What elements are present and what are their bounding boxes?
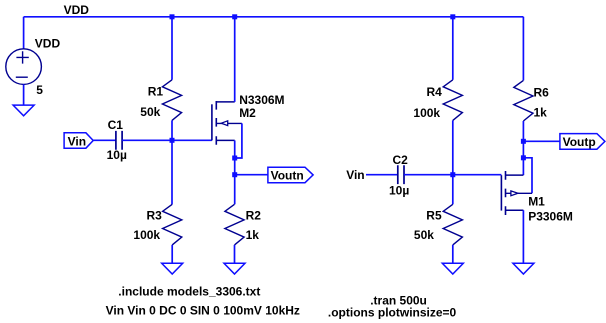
wire rail to R1: [171, 17, 173, 80]
junction node at R4/C2/R5/M1-gate: [450, 172, 455, 177]
wire mid junction down to R3: [171, 140, 173, 204]
svg-text:Vin Vin 0 DC 0 SIN 0 100mV 10k: Vin Vin 0 DC 0 SIN 0 100mV 10kHz: [106, 304, 300, 318]
junction M1 source/bulk node: [521, 155, 526, 160]
wire R6 bottom to Voutp node: [522, 121, 524, 141]
junction on rail at R4 column: [450, 14, 455, 19]
wire M2 bulk to source node: [235, 123, 242, 158]
wire rail corner down to R6: [522, 17, 524, 81]
wire M1 source up to node: [522, 158, 524, 175]
svg-text:100k: 100k: [413, 106, 440, 120]
ground below R5: [442, 263, 463, 274]
wire R3 to ground: [171, 245, 173, 263]
svg-text:M1: M1: [528, 194, 545, 208]
wire M1 drain down to ground: [522, 210, 524, 263]
wire Vin label to C2: [366, 174, 398, 176]
svg-text:R4: R4: [427, 85, 443, 99]
svg-text:Vin: Vin: [68, 134, 86, 148]
port Voutn tag: [268, 167, 313, 183]
wire junction down to R5: [452, 175, 454, 205]
junction output node Voutn: [232, 172, 237, 177]
wire output node to R2: [234, 175, 236, 205]
wire M1 bulk to node: [523, 158, 532, 194]
transistor M1 drain lead: [506, 209, 524, 211]
svg-text:100k: 100k: [133, 228, 160, 242]
svg-text:.include models_3306.txt: .include models_3306.txt: [118, 284, 260, 298]
resistor R3: [163, 204, 182, 245]
capacitor C2: [398, 165, 404, 184]
wire source node to output node: [234, 158, 236, 175]
svg-text:M2: M2: [239, 106, 256, 120]
svg-text:P3306M: P3306M: [528, 210, 573, 224]
transistor M2 channel segments: [215, 101, 217, 145]
svg-text:Voutn: Voutn: [271, 168, 304, 182]
ground below R2: [224, 263, 245, 274]
wire rail to R4: [452, 17, 454, 80]
transistor M1 channel segments: [505, 171, 507, 215]
port Vin input tag: [64, 133, 93, 148]
wire Vin tag to C1: [93, 139, 116, 141]
svg-text:.options plotwinsize=0: .options plotwinsize=0: [328, 306, 457, 320]
wire VDD rail: [24, 16, 524, 18]
wire M2 source down: [234, 140, 236, 158]
wire rail to M2 drain: [234, 17, 236, 102]
transistor M2 gate bar: [211, 104, 213, 140]
transistor M1 gate bar: [500, 175, 502, 210]
wire junction to M1 gate: [453, 174, 502, 176]
voltage source V1 minus sign: [16, 76, 28, 78]
junction Voutp node: [521, 139, 526, 144]
transistor M2 source lead: [216, 139, 234, 141]
svg-text:R2: R2: [246, 209, 262, 223]
transistor M2 bulk lead with arrow: [216, 122, 242, 124]
ground below M1: [513, 263, 534, 274]
wire junction to M2 gate: [172, 139, 212, 141]
wire to Voutp tag: [523, 140, 560, 142]
svg-text:R6: R6: [534, 86, 550, 100]
svg-text:1k: 1k: [534, 106, 548, 120]
voltage source V1 circle: [6, 49, 42, 85]
wire C1 to mid junction: [122, 139, 172, 141]
wire to Voutn tag: [235, 174, 268, 176]
transistor M1 source lead: [506, 174, 524, 176]
transistor M2 drain lead: [216, 101, 234, 103]
svg-text:10µ: 10µ: [389, 183, 409, 197]
svg-text:1k: 1k: [246, 228, 260, 242]
ground below R3: [162, 263, 183, 274]
svg-text:VDD: VDD: [35, 36, 61, 50]
ground below V1: [13, 105, 34, 116]
resistor R6: [514, 80, 533, 121]
wire R4 bottom to right mid junction: [452, 120, 454, 174]
port Voutp tag: [560, 134, 605, 150]
junction on rail at R1 column: [170, 14, 175, 19]
wire rail to V1 top: [23, 17, 25, 49]
svg-text:R3: R3: [147, 209, 163, 223]
capacitor C1: [116, 131, 122, 150]
svg-text:10µ: 10µ: [107, 148, 127, 162]
svg-text:Vin: Vin: [346, 168, 364, 182]
transistor M1 bulk lead with arrow: [506, 192, 533, 194]
junction node at R1/C1/R3/M2-gate: [170, 138, 175, 143]
voltage source V1 plus sign: [16, 51, 28, 63]
svg-text:C1: C1: [108, 118, 124, 132]
svg-text:C2: C2: [393, 153, 409, 167]
wire V1 bottom to ground: [23, 84, 25, 105]
wire Voutp node down to M1 source node: [522, 141, 524, 158]
svg-text:50k: 50k: [414, 228, 434, 242]
svg-text:50k: 50k: [140, 105, 160, 119]
svg-text:R1: R1: [148, 85, 164, 99]
svg-text:5: 5: [36, 83, 43, 97]
resistor R4: [443, 80, 462, 121]
svg-text:R5: R5: [426, 209, 442, 223]
wire R2 to ground: [234, 245, 236, 263]
wire R1 bottom to mid junction: [171, 120, 173, 140]
resistor R2: [225, 204, 244, 245]
wire R5 to ground: [452, 245, 454, 263]
junction M2 source/bulk: [232, 156, 237, 161]
junction on rail at M2 column: [232, 14, 237, 19]
svg-text:VDD: VDD: [64, 3, 90, 17]
wire C2 to right mid junction: [404, 174, 453, 176]
resistor R1: [162, 80, 181, 121]
resistor R5: [443, 204, 462, 245]
svg-text:Voutp: Voutp: [563, 135, 596, 149]
